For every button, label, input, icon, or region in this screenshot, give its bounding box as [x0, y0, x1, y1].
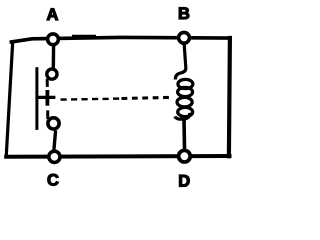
- lower contact point: [48, 110, 59, 129]
- dashed mechanical link: [61, 97, 174, 99]
- node B terminal circle: [179, 32, 190, 43]
- wire: bottom edge of loop: [6, 154, 229, 159]
- switch armature link bar: [36, 96, 56, 99]
- node C terminal circle: [49, 151, 60, 162]
- svg-text:D: D: [178, 172, 190, 190]
- wire: left edge of loop: [6, 42, 13, 157]
- node A terminal circle: [48, 34, 59, 45]
- wire: coil to terminal D: [175, 113, 190, 119]
- svg-text:A: A: [47, 6, 59, 24]
- switch armature blade: [35, 67, 38, 130]
- svg-text:C: C: [47, 172, 59, 190]
- wire: terminal A to upper contact: [52, 45, 56, 70]
- relay coil: [177, 79, 193, 116]
- switch moving contact bar: [46, 90, 50, 106]
- node D terminal circle: [179, 150, 191, 162]
- wire: right edge of loop: [229, 38, 230, 156]
- wire: top edge of loop: [11, 37, 230, 42]
- upper contact point: [47, 69, 57, 87]
- svg-text:B: B: [178, 5, 190, 23]
- wire: lower contact to terminal C: [54, 131, 56, 152]
- wire: terminal B to coil: [175, 45, 185, 80]
- wire: top edge overlap stroke: [72, 35, 96, 37]
